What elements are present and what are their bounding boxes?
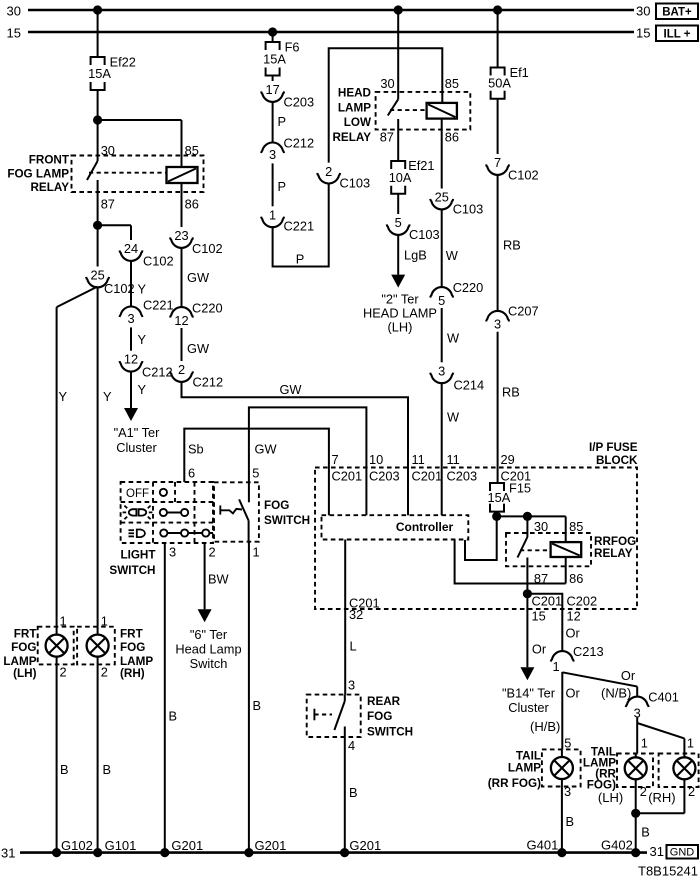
- svg-text:C221: C221: [143, 298, 174, 313]
- svg-text:23: 23: [174, 228, 188, 243]
- svg-text:12: 12: [567, 609, 581, 624]
- svg-text:2: 2: [640, 784, 647, 799]
- svg-text:2: 2: [688, 784, 695, 799]
- svg-text:"A1" Ter: "A1" Ter: [114, 425, 161, 440]
- svg-text:25: 25: [435, 190, 449, 205]
- svg-text:C103: C103: [340, 176, 371, 191]
- svg-text:1: 1: [60, 614, 67, 629]
- svg-text:11: 11: [447, 452, 460, 467]
- svg-text:G201: G201: [255, 838, 287, 853]
- svg-text:Or: Or: [566, 626, 581, 641]
- svg-text:31: 31: [650, 844, 664, 859]
- svg-text:15A: 15A: [488, 490, 511, 505]
- svg-text:Ef1: Ef1: [510, 65, 529, 80]
- svg-text:10: 10: [369, 452, 383, 467]
- svg-text:B: B: [566, 814, 575, 829]
- svg-text:32: 32: [349, 607, 363, 622]
- svg-text:3: 3: [348, 678, 355, 693]
- svg-text:86: 86: [445, 130, 459, 145]
- svg-text:C203: C203: [369, 469, 400, 484]
- svg-text:86: 86: [185, 197, 199, 212]
- svg-text:C102: C102: [143, 254, 174, 269]
- svg-text:Cluster: Cluster: [116, 440, 157, 455]
- svg-text:FRONT: FRONT: [29, 154, 70, 167]
- svg-text:GW: GW: [187, 270, 210, 285]
- svg-text:1: 1: [687, 736, 694, 751]
- svg-text:T8B15241: T8B15241: [638, 864, 698, 879]
- svg-text:LgB: LgB: [404, 248, 427, 263]
- svg-text:ILL +: ILL +: [664, 29, 691, 41]
- svg-text:12: 12: [174, 313, 188, 328]
- svg-text:G402: G402: [601, 838, 633, 853]
- svg-text:P: P: [296, 252, 305, 267]
- svg-text:86: 86: [569, 571, 583, 586]
- svg-text:3: 3: [494, 317, 501, 332]
- svg-text:C201: C201: [532, 594, 563, 609]
- svg-text:Y: Y: [103, 389, 112, 404]
- svg-text:5: 5: [564, 736, 571, 751]
- svg-text:C214: C214: [454, 378, 485, 393]
- svg-text:B: B: [253, 698, 262, 713]
- svg-text:85: 85: [445, 76, 459, 91]
- svg-text:W: W: [447, 331, 460, 346]
- svg-text:RELAY: RELAY: [30, 181, 69, 194]
- svg-text:7: 7: [494, 155, 501, 170]
- svg-text:SWITCH: SWITCH: [264, 514, 310, 527]
- svg-text:B: B: [60, 762, 69, 777]
- svg-text:15: 15: [636, 26, 650, 41]
- svg-text:2: 2: [101, 665, 108, 680]
- svg-text:5: 5: [438, 293, 445, 308]
- svg-text:85: 85: [569, 519, 583, 534]
- svg-text:(LH): (LH): [13, 667, 36, 680]
- svg-text:B: B: [169, 709, 178, 724]
- svg-text:C103: C103: [453, 202, 484, 217]
- svg-text:Head Lamp: Head Lamp: [175, 642, 241, 657]
- svg-text:GND: GND: [670, 847, 695, 859]
- svg-text:87: 87: [380, 130, 394, 145]
- svg-text:30: 30: [636, 4, 650, 19]
- svg-text:15A: 15A: [263, 51, 286, 66]
- svg-text:REAR: REAR: [367, 695, 401, 708]
- svg-text:15A: 15A: [88, 66, 111, 81]
- svg-text:C203: C203: [284, 95, 315, 110]
- svg-text:W: W: [447, 410, 460, 425]
- svg-text:P: P: [278, 179, 287, 194]
- svg-text:G401: G401: [527, 838, 559, 853]
- svg-text:(LH): (LH): [598, 790, 623, 805]
- svg-text:HEAD LAMP: HEAD LAMP: [363, 306, 437, 321]
- svg-text:24: 24: [124, 241, 138, 256]
- svg-text:(RH): (RH): [648, 790, 675, 805]
- svg-text:Ef21: Ef21: [408, 158, 434, 173]
- svg-text:FOG: FOG: [367, 710, 392, 723]
- svg-text:30: 30: [7, 4, 21, 19]
- svg-text:BLOCK: BLOCK: [596, 454, 638, 467]
- svg-text:Y: Y: [138, 282, 147, 297]
- svg-text:RELAY: RELAY: [332, 131, 371, 144]
- svg-text:C401: C401: [648, 690, 679, 705]
- svg-text:11: 11: [412, 452, 425, 467]
- svg-text:BW: BW: [208, 572, 230, 587]
- svg-text:C102: C102: [192, 241, 223, 256]
- svg-text:W: W: [446, 248, 459, 263]
- svg-text:Y: Y: [138, 332, 147, 347]
- svg-text:C220: C220: [453, 280, 484, 295]
- svg-text:B: B: [641, 825, 650, 840]
- svg-text:GW: GW: [187, 341, 210, 356]
- svg-text:C201: C201: [412, 469, 443, 484]
- svg-text:C102: C102: [508, 168, 539, 183]
- svg-text:C220: C220: [192, 301, 223, 316]
- svg-text:10A: 10A: [389, 170, 412, 185]
- svg-text:GW: GW: [255, 442, 278, 457]
- svg-text:Or: Or: [532, 642, 547, 657]
- svg-text:HEAD: HEAD: [338, 87, 371, 100]
- svg-text:6: 6: [188, 466, 195, 481]
- svg-text:(H/B): (H/B): [530, 719, 560, 734]
- svg-text:SWITCH: SWITCH: [367, 726, 413, 739]
- svg-text:5: 5: [252, 466, 259, 481]
- svg-text:1: 1: [101, 614, 108, 629]
- svg-text:Controller: Controller: [396, 520, 454, 534]
- svg-text:C221: C221: [284, 219, 315, 234]
- svg-text:17: 17: [265, 82, 279, 97]
- svg-text:FOG: FOG: [11, 641, 36, 654]
- svg-text:"B14" Ter: "B14" Ter: [502, 686, 556, 701]
- svg-text:C102: C102: [104, 281, 135, 296]
- svg-text:RELAY: RELAY: [594, 547, 633, 560]
- svg-text:29: 29: [501, 452, 515, 467]
- svg-text:30: 30: [534, 519, 548, 534]
- svg-text:C202: C202: [567, 594, 598, 609]
- svg-text:15: 15: [532, 609, 546, 624]
- svg-text:Switch: Switch: [190, 656, 228, 671]
- svg-text:3: 3: [169, 545, 176, 560]
- svg-text:50A: 50A: [488, 76, 511, 91]
- svg-text:(RR FOG): (RR FOG): [488, 777, 541, 790]
- svg-text:2: 2: [178, 362, 185, 377]
- svg-text:LAMP: LAMP: [338, 101, 371, 114]
- svg-text:I/P FUSE: I/P FUSE: [589, 441, 638, 454]
- svg-text:FRT: FRT: [14, 628, 38, 641]
- svg-text:G201: G201: [349, 838, 381, 853]
- svg-text:Cluster: Cluster: [508, 700, 549, 715]
- svg-text:3: 3: [438, 363, 445, 378]
- svg-text:BAT+: BAT+: [662, 7, 692, 19]
- svg-text:3: 3: [269, 147, 276, 162]
- svg-text:3: 3: [127, 311, 134, 326]
- svg-text:LAMP: LAMP: [508, 762, 541, 775]
- svg-text:B: B: [103, 762, 112, 777]
- svg-text:LOW: LOW: [344, 116, 372, 129]
- svg-text:G201: G201: [171, 838, 203, 853]
- svg-text:F15: F15: [509, 481, 531, 496]
- svg-text:C201: C201: [332, 469, 363, 484]
- svg-text:C213: C213: [573, 644, 604, 659]
- svg-text:1: 1: [269, 207, 276, 222]
- svg-text:5: 5: [395, 215, 402, 230]
- svg-text:C103: C103: [409, 227, 440, 242]
- svg-text:L: L: [350, 639, 357, 654]
- svg-text:30: 30: [380, 76, 394, 91]
- svg-text:"6" Ter: "6" Ter: [190, 627, 228, 642]
- svg-text:1: 1: [641, 736, 648, 751]
- svg-text:87: 87: [101, 197, 115, 212]
- svg-text:Sb: Sb: [188, 442, 204, 457]
- svg-text:FOG: FOG: [264, 499, 289, 512]
- svg-text:SWITCH: SWITCH: [109, 564, 155, 577]
- svg-text:C212: C212: [193, 375, 224, 390]
- svg-text:85: 85: [185, 143, 199, 158]
- svg-text:LIGHT: LIGHT: [120, 549, 156, 562]
- svg-text:(N/B): (N/B): [601, 686, 631, 701]
- svg-text:(LH): (LH): [388, 320, 413, 335]
- svg-text:3: 3: [564, 784, 571, 799]
- svg-text:B: B: [349, 785, 358, 800]
- svg-text:2: 2: [325, 164, 332, 179]
- svg-text:30: 30: [101, 143, 115, 158]
- svg-text:OFF: OFF: [126, 488, 149, 500]
- svg-text:GW: GW: [279, 382, 302, 397]
- svg-text:RB: RB: [502, 385, 520, 400]
- svg-text:RB: RB: [503, 238, 521, 253]
- svg-text:1: 1: [253, 545, 260, 560]
- svg-text:12: 12: [124, 352, 138, 367]
- svg-text:Y: Y: [138, 382, 147, 397]
- svg-text:(RH): (RH): [120, 667, 145, 680]
- svg-text:FOG: FOG: [120, 641, 145, 654]
- svg-text:P: P: [278, 114, 287, 129]
- svg-text:G101: G101: [105, 838, 137, 853]
- svg-text:C203: C203: [447, 469, 478, 484]
- svg-text:C212: C212: [284, 136, 315, 151]
- svg-text:15: 15: [7, 26, 21, 41]
- svg-text:2: 2: [209, 545, 216, 560]
- svg-text:Ef22: Ef22: [110, 55, 136, 70]
- svg-text:1: 1: [552, 659, 559, 674]
- svg-text:FRT: FRT: [120, 628, 144, 641]
- svg-text:31: 31: [1, 846, 15, 861]
- svg-text:C207: C207: [508, 304, 539, 319]
- svg-text:2: 2: [60, 665, 67, 680]
- svg-text:7: 7: [332, 452, 339, 467]
- svg-text:G102: G102: [61, 838, 93, 853]
- svg-text:C212: C212: [142, 365, 173, 380]
- svg-text:Y: Y: [59, 389, 68, 404]
- svg-text:Or: Or: [566, 686, 581, 701]
- svg-text:F6: F6: [285, 40, 300, 55]
- svg-text:4: 4: [348, 738, 355, 753]
- svg-text:Or: Or: [621, 668, 636, 683]
- svg-text:FOG LAMP: FOG LAMP: [7, 168, 69, 181]
- svg-text:"2" Ter: "2" Ter: [381, 291, 419, 306]
- svg-text:25: 25: [90, 268, 104, 283]
